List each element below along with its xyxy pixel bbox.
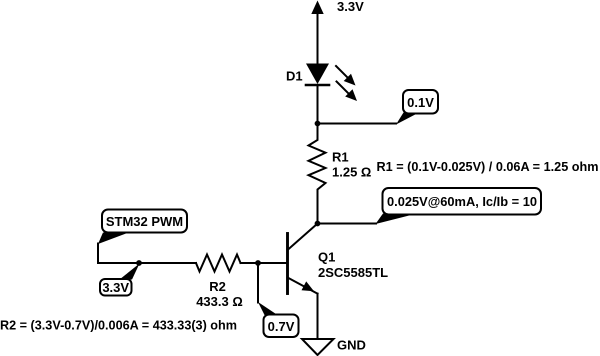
svg-text:R2 = (3.3V-0.7V)/0.006A = 433.: R2 = (3.3V-0.7V)/0.006A = 433.33(3) ohm [0, 318, 237, 333]
ground [302, 339, 334, 355]
node collector junction [315, 221, 321, 227]
callout STM32 PWM [98, 210, 187, 245]
svg-text:0.025V@60mA, Ic/Ib = 10: 0.025V@60mA, Ic/Ib = 10 [387, 194, 537, 209]
wire supply to LED [317, 13, 319, 64]
resistor R2 [196, 255, 241, 272]
svg-text:R1: R1 [332, 150, 349, 165]
svg-text:D1: D1 [286, 69, 303, 84]
power supply 3.3V arrow [311, 1, 323, 15]
wire base node down [257, 263, 259, 303]
svg-text:0.7V: 0.7V [268, 319, 295, 334]
label R1 value [332, 150, 371, 180]
svg-text:3.3V: 3.3V [337, 0, 364, 14]
callout 3.3V [100, 264, 140, 296]
wire STM32 PWM down [97, 244, 99, 264]
svg-text:0.1V: 0.1V [407, 95, 434, 110]
svg-text:2SC5585TL: 2SC5585TL [318, 265, 388, 280]
callout 0.025V@60mA [376, 188, 542, 224]
label Q1 [318, 250, 388, 281]
diode D1 (LED) [306, 64, 357, 102]
node junction 3.3V tap [136, 260, 142, 266]
wire node to 0.1V callout [318, 123, 397, 125]
svg-text:R2: R2 [209, 279, 226, 294]
transistor Q1 [288, 224, 318, 294]
svg-text:STM32 PWM: STM32 PWM [106, 214, 183, 229]
node junction base [255, 260, 261, 266]
svg-text:GND: GND [337, 338, 366, 353]
node junction below LED [315, 121, 321, 127]
callout 0.7V [258, 302, 299, 337]
svg-text:Q1: Q1 [318, 250, 335, 265]
wire emitter to ground [317, 294, 319, 339]
svg-text:433.3 Ω: 433.3 Ω [196, 294, 243, 309]
svg-text:1.25 Ω: 1.25 Ω [332, 165, 371, 180]
label R2 value [196, 279, 243, 309]
resistor R1 [309, 124, 326, 223]
wire R2 to base [241, 262, 288, 264]
svg-text:3.3V: 3.3V [102, 280, 129, 295]
wire left horizontal to R2 [98, 262, 196, 264]
wire LED cathode to node [317, 85, 319, 123]
svg-text:R1 = (0.1V-0.025V) / 0.06A = 1: R1 = (0.1V-0.025V) / 0.06A = 1.25 ohm [377, 159, 599, 174]
wire node to 0.025V callout [318, 223, 377, 225]
callout 0.1V [396, 90, 438, 125]
